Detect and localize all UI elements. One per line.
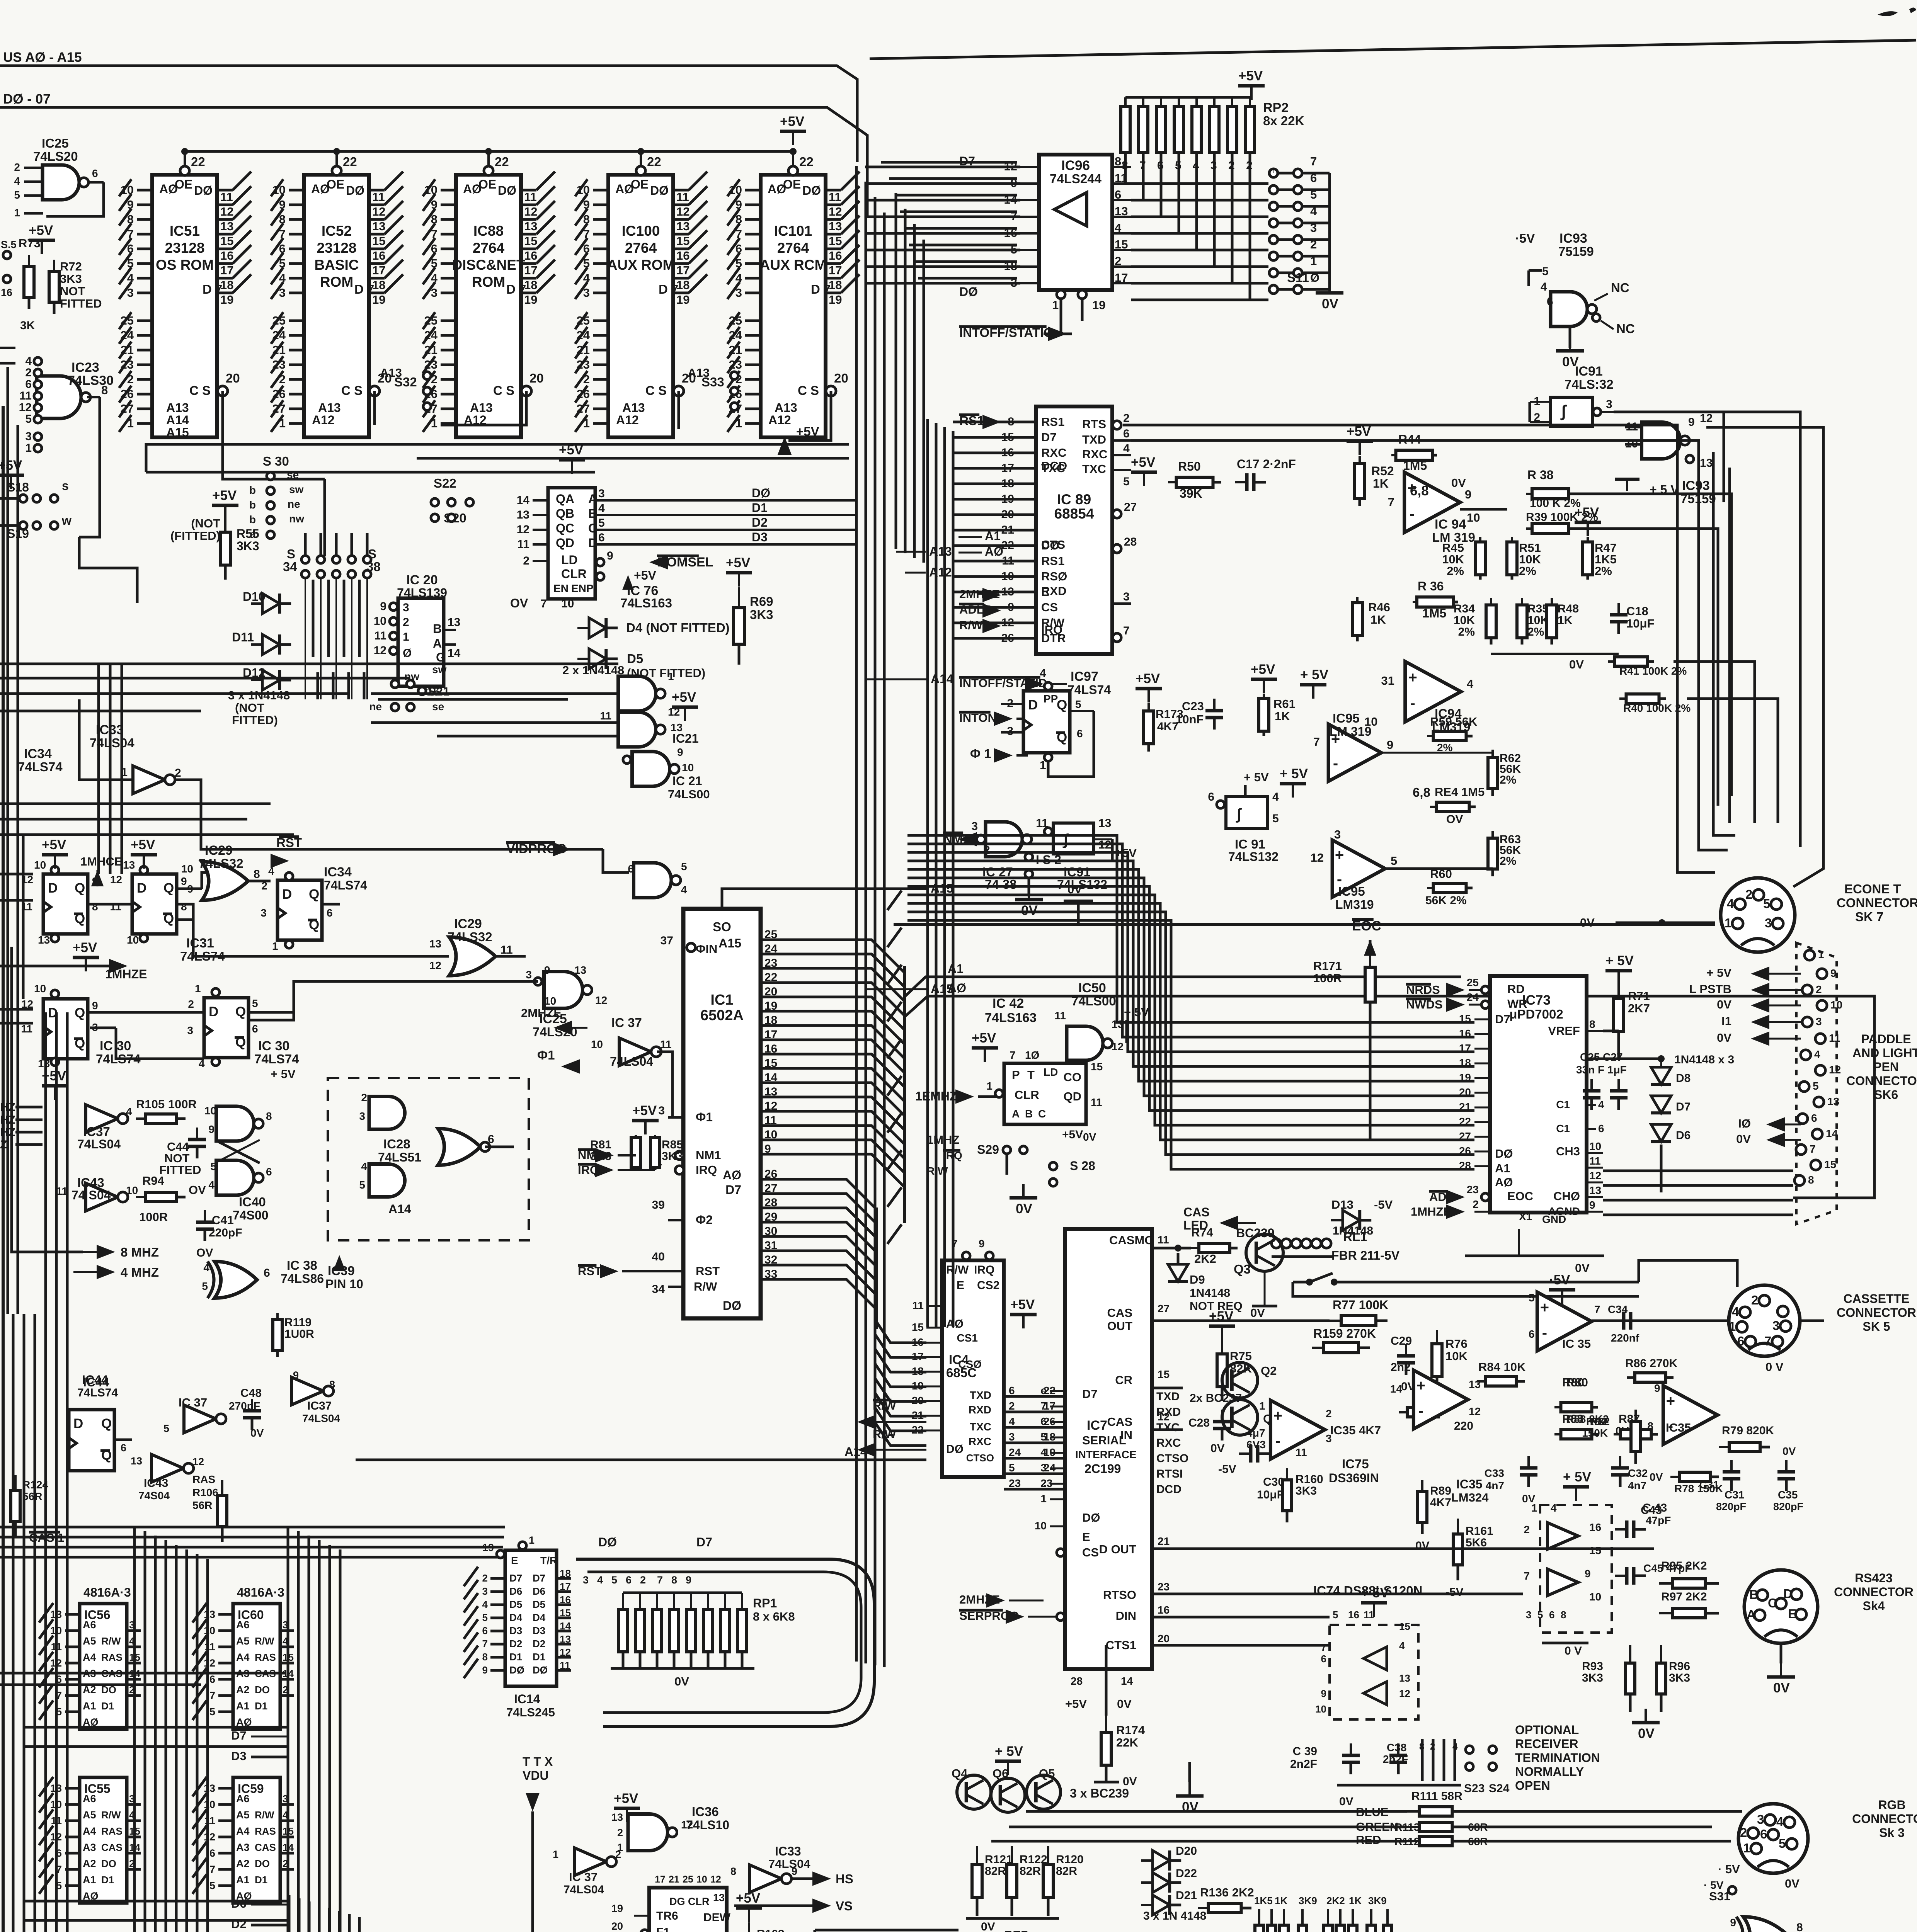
svg-text:56R: 56R (192, 1499, 212, 1511)
svg-text:13: 13 (1399, 1672, 1410, 1684)
svg-text:1K: 1K (1275, 709, 1290, 723)
svg-text:DISC&NET: DISC&NET (452, 257, 525, 273)
nand gate IC91 74LS132 (1053, 823, 1094, 854)
svg-text:RAS: RAS (192, 1473, 215, 1485)
svg-text:BASIC: BASIC (314, 257, 359, 273)
svg-text:12: 12 (560, 1646, 571, 1658)
svg-text:74LS74: 74LS74 (1067, 683, 1111, 697)
svg-text:3: 3 (971, 820, 978, 833)
svg-text:OE: OE (327, 177, 344, 191)
relay RL1 coil (1272, 1239, 1281, 1248)
resistor R86 (1627, 1376, 1635, 1379)
wire (32, 958, 73, 1272)
svg-text:R159 270K: R159 270K (1313, 1327, 1376, 1340)
svg-text:33: 33 (764, 1268, 777, 1281)
svg-text:R77 100K: R77 100K (1333, 1298, 1388, 1312)
svg-text:10: 10 (34, 983, 46, 995)
nand IC40 a (216, 1106, 254, 1141)
ROM IC100 (608, 175, 673, 437)
svg-text:D7: D7 (231, 1729, 247, 1742)
resistor R90 (1399, 1411, 1407, 1413)
svg-text:E: E (1788, 1607, 1796, 1621)
svg-text:6: 6 (92, 167, 98, 179)
svg-text:D7: D7 (1495, 1012, 1510, 1026)
wire (841, 172, 860, 190)
svg-text:1: 1 (1052, 298, 1059, 312)
svg-text:16: 16 (1348, 1609, 1359, 1621)
svg-text:13: 13 (131, 1455, 142, 1467)
svg-text:RS1: RS1 (1041, 554, 1064, 568)
svg-text:2K2: 2K2 (1194, 1252, 1216, 1265)
svg-text:4: 4 (25, 355, 32, 367)
svg-text:D: D (209, 1004, 218, 1019)
switch S32 (423, 372, 431, 379)
svg-text:R136 2K2: R136 2K2 (1200, 1886, 1254, 1899)
svg-text:+5V: +5V (672, 690, 696, 705)
svg-text:15: 15 (372, 234, 385, 248)
svg-text:29: 29 (764, 1211, 777, 1223)
svg-text:WR: WR (1507, 997, 1527, 1010)
svg-text:Φ 1: Φ 1 (970, 747, 991, 761)
power +5V RP2 (1250, 86, 1253, 97)
svg-text:11: 11 (524, 190, 537, 204)
svg-text:7: 7 (1594, 1303, 1600, 1315)
diode D22 (1153, 1872, 1170, 1893)
svg-text:24: 24 (764, 942, 778, 955)
svg-text:T/R: T/R (540, 1555, 557, 1566)
inverter IC37 c48 (184, 1405, 216, 1433)
svg-text:10: 10 (1035, 1520, 1047, 1532)
svg-text:15: 15 (1158, 1368, 1170, 1380)
svg-text:4: 4 (1040, 667, 1046, 680)
svg-text:IC 94: IC 94 (1435, 517, 1466, 532)
svg-text:74LS32: 74LS32 (199, 856, 243, 871)
svg-text:13: 13 (38, 1058, 50, 1070)
svg-text:DCD: DCD (1041, 459, 1067, 473)
wire switch matrix verticals (305, 578, 306, 699)
svg-text:IC35: IC35 (1456, 1477, 1483, 1491)
svg-text:D1: D1 (533, 1651, 545, 1663)
wire termination resistors (1421, 1739, 1424, 1781)
nor gate IC28 c (438, 1129, 480, 1165)
svg-text:Q4: Q4 (952, 1767, 968, 1780)
wire A1 A0 breakout (904, 977, 1461, 997)
svg-text:16: 16 (524, 249, 537, 262)
svg-text:10: 10 (591, 1038, 603, 1050)
svg-text:6: 6 (488, 1133, 494, 1146)
svg-text:D1: D1 (509, 1651, 522, 1663)
svg-text:OS ROM: OS ROM (156, 257, 214, 273)
svg-text:8 MHZ: 8 MHZ (121, 1245, 159, 1259)
svg-text:D5: D5 (627, 651, 643, 666)
svg-text:CH3: CH3 (1556, 1145, 1580, 1158)
wire econet long TXD (1131, 440, 1727, 850)
svg-text:5: 5 (14, 189, 20, 201)
svg-text:9: 9 (1730, 1917, 1736, 1929)
svg-text:OPEN: OPEN (1515, 1779, 1550, 1793)
diode D5 (589, 649, 606, 669)
svg-text:15: 15 (1459, 1013, 1471, 1025)
op-amp IC35 cassette out (1537, 1292, 1592, 1351)
svg-text:DØ: DØ (959, 285, 978, 299)
svg-text:-: - (1542, 1324, 1547, 1341)
svg-text:+: + (1666, 1393, 1675, 1410)
svg-text:3 x 1N4148: 3 x 1N4148 (228, 689, 290, 702)
wire mid-left horizontals 2 (0, 803, 271, 805)
svg-text:R171: R171 (1313, 959, 1342, 973)
capacitor C23 (1213, 699, 1216, 711)
svg-text:A: A (433, 636, 442, 650)
svg-text:1K: 1K (1373, 476, 1389, 490)
svg-text:IRQ: IRQ (974, 1264, 994, 1276)
svg-text:IC43: IC43 (77, 1175, 104, 1190)
svg-text:21: 21 (1459, 1101, 1471, 1113)
svg-text:2: 2 (1326, 1408, 1332, 1420)
svg-text:RXC: RXC (969, 1435, 991, 1447)
svg-text:CONNECTOR: CONNECTOR (1837, 1306, 1916, 1320)
wire serial bottoms (1105, 1645, 1108, 1716)
wire cassette routes (1592, 1320, 1730, 1322)
svg-text:0V: 0V (250, 1427, 264, 1439)
svg-text:15: 15 (829, 234, 842, 248)
xor gate IC48 video (1743, 1917, 1788, 1932)
svg-text:R76: R76 (1445, 1337, 1468, 1350)
svg-text:PP: PP (1044, 693, 1058, 705)
svg-text:X1: X1 (1519, 1211, 1532, 1223)
svg-text:19: 19 (220, 293, 233, 306)
svg-text:23: 23 (1009, 1477, 1021, 1489)
nand IC40 b (216, 1160, 254, 1195)
resistor R89 (1421, 1480, 1423, 1492)
svg-text:IC 30: IC 30 (258, 1039, 289, 1053)
power +5V (726, 571, 752, 575)
svg-text:TERMINATION: TERMINATION (1515, 1751, 1600, 1765)
paddle pins (1805, 950, 1815, 960)
svg-text:22: 22 (764, 971, 777, 984)
svg-text:0V: 0V (1322, 296, 1338, 311)
svg-text:OUT: OUT (1107, 1319, 1133, 1333)
svg-text:13: 13 (448, 616, 460, 629)
resistor R96 (1660, 1645, 1662, 1663)
IC14 74LS245 (505, 1550, 557, 1686)
svg-text:15: 15 (1115, 238, 1128, 251)
svg-text:6: 6 (209, 1673, 215, 1685)
svg-text:12: 12 (110, 874, 122, 886)
svg-text:17: 17 (1459, 1042, 1471, 1054)
svg-text:R40 100K 2%: R40 100K 2% (1623, 702, 1691, 714)
svg-text:9: 9 (482, 1664, 488, 1676)
or gate IC29 74LS32 (202, 862, 248, 900)
svg-text:12: 12 (595, 994, 607, 1006)
op-amp IC35 cassette in (1270, 1400, 1325, 1459)
svg-text:A12: A12 (312, 413, 335, 427)
svg-text:R84 10K: R84 10K (1478, 1360, 1526, 1374)
svg-text:RAS: RAS (255, 1825, 276, 1837)
wire (174, 780, 603, 849)
svg-text:5: 5 (1763, 896, 1770, 911)
svg-text:74S04: 74S04 (138, 1490, 170, 1502)
svg-text:11: 11 (912, 1299, 924, 1311)
svg-text:C: C (1038, 1108, 1046, 1120)
svg-text:IC29: IC29 (454, 917, 482, 931)
IC76 74LS163 counter (548, 488, 595, 599)
wire A14 (866, 679, 928, 680)
xor gate IC38 (215, 1262, 257, 1298)
svg-text:4: 4 (208, 1179, 215, 1191)
svg-text:IC34: IC34 (324, 865, 352, 879)
svg-text:T: T (1027, 1068, 1035, 1082)
svg-text:IC37: IC37 (83, 1124, 110, 1139)
DIN connector SK4 RS423 (1744, 1570, 1818, 1643)
svg-text:+5V: +5V (614, 1791, 638, 1806)
svg-text:TXC: TXC (970, 1421, 991, 1433)
svg-text:3K3: 3K3 (750, 607, 773, 622)
svg-text:22K: 22K (1116, 1736, 1138, 1749)
svg-text:13: 13 (713, 1892, 725, 1903)
svg-text:A6: A6 (83, 1793, 96, 1804)
svg-text:+: + (1408, 669, 1417, 686)
svg-text:11: 11 (560, 1660, 570, 1671)
svg-text:IC44: IC44 (82, 1373, 108, 1387)
svg-text:A: A (588, 492, 597, 506)
svg-text:1: 1 (403, 631, 409, 643)
svg-text:23128: 23128 (317, 240, 357, 256)
wire S11 collect (1303, 172, 1330, 175)
svg-text:D: D (588, 536, 597, 550)
svg-text:3: 3 (1526, 1609, 1531, 1621)
svg-text:IC36: IC36 (692, 1804, 719, 1819)
svg-text:11: 11 (1054, 1010, 1066, 1022)
svg-text:Φ2: Φ2 (696, 1213, 713, 1227)
svg-text:21: 21 (669, 1874, 679, 1885)
svg-text:15: 15 (524, 234, 537, 248)
svg-text:2MHZE: 2MHZE (521, 1006, 562, 1020)
svg-text:11: 11 (1364, 1609, 1374, 1621)
svg-text:6: 6 (1737, 1334, 1744, 1348)
svg-text:6,8: 6,8 (1413, 785, 1430, 799)
svg-text:0V: 0V (1736, 1132, 1751, 1146)
resistor R103 (748, 1922, 750, 1932)
svg-text:5: 5 (209, 1706, 215, 1718)
svg-text:27: 27 (1158, 1303, 1170, 1315)
resistor R95 (1659, 1582, 1673, 1585)
transistor Q4 (957, 1775, 991, 1809)
svg-text:18: 18 (524, 278, 537, 292)
paddle connector SK6 outline (1796, 943, 1837, 1224)
svg-text:8x 22K: 8x 22K (1263, 114, 1304, 128)
svg-text:6: 6 (598, 531, 605, 544)
svg-text:DIN: DIN (1116, 1609, 1136, 1622)
svg-text:10: 10 (127, 934, 139, 946)
svg-text:S 30: S 30 (263, 454, 289, 468)
svg-text:74LS245: 74LS245 (506, 1706, 555, 1719)
svg-text:RB2: RB2 (1586, 1415, 1608, 1427)
svg-text:US AØ - A15: US AØ - A15 (3, 50, 82, 65)
power +5V (131, 853, 157, 857)
svg-text:220pF: 220pF (209, 1226, 242, 1239)
svg-text:9: 9 (677, 746, 683, 758)
svg-text:68854: 68854 (1054, 506, 1094, 522)
IC7 2C199 serial ULA (1065, 1229, 1152, 1669)
resistor R34 (1490, 598, 1492, 605)
svg-text:1MHZ: 1MHZ (927, 1133, 959, 1146)
svg-text:CAS: CAS (1107, 1415, 1132, 1429)
wire (79, 537, 137, 603)
op-amp IC35 LM324 (1413, 1370, 1468, 1429)
svg-text:2K7: 2K7 (1628, 1002, 1650, 1015)
svg-text:7: 7 (1810, 1143, 1816, 1155)
IC89 68854 ADLC (1036, 406, 1112, 654)
svg-text:5: 5 (1391, 854, 1397, 867)
svg-text:13: 13 (204, 1609, 215, 1620)
svg-text:RTS: RTS (1082, 417, 1106, 431)
svg-text:NC: NC (1616, 321, 1635, 336)
svg-text:17: 17 (655, 1874, 666, 1885)
svg-text:IC 37: IC 37 (179, 1396, 207, 1409)
svg-text:R93: R93 (1582, 1660, 1603, 1673)
svg-text:AUX RCM: AUX RCM (760, 257, 827, 273)
svg-text:19: 19 (1044, 1446, 1056, 1458)
svg-text:RS1: RS1 (1041, 415, 1064, 429)
svg-text:S22: S22 (434, 476, 456, 490)
svg-text:+5V: +5V (632, 1103, 657, 1118)
svg-text:20: 20 (529, 371, 544, 385)
ground 0V 2 (1188, 1782, 1191, 1796)
svg-text:2K2: 2K2 (1326, 1895, 1345, 1906)
svg-text:+5V: +5V (726, 555, 751, 570)
svg-text:13: 13 (829, 219, 842, 233)
svg-text:5: 5 (1542, 265, 1549, 278)
svg-text:R85: R85 (662, 1138, 683, 1151)
svg-text:220: 220 (1454, 1420, 1473, 1432)
svg-text:1: 1 (25, 442, 32, 454)
svg-text:LM324: LM324 (1451, 1491, 1489, 1504)
nand gate IC27 7438 (986, 822, 1022, 857)
ground RP1 (611, 1667, 754, 1670)
svg-text:10K: 10K (1454, 614, 1475, 627)
svg-text:C48: C48 (240, 1387, 262, 1400)
svg-text:DO: DO (255, 1858, 270, 1869)
svg-text:PADDLE: PADDLE (1861, 1032, 1911, 1046)
svg-text:47pF: 47pF (1646, 1514, 1671, 1526)
signal VS (812, 1898, 831, 1913)
svg-text:8: 8 (1589, 1018, 1595, 1030)
svg-text:2: 2 (403, 616, 409, 629)
svg-text:sw: sw (289, 483, 304, 495)
svg-text:ROM: ROM (320, 274, 353, 290)
svg-text:1: 1 (14, 207, 20, 219)
svg-text:R105 100R: R105 100R (136, 1097, 197, 1111)
resistor R80 (1554, 1406, 1561, 1408)
svg-text:3K3: 3K3 (1669, 1672, 1690, 1684)
svg-text:2%: 2% (1458, 626, 1475, 638)
svg-text:0 V: 0 V (1765, 1360, 1784, 1374)
svg-text:·5V: ·5V (1549, 1272, 1570, 1287)
capacitor C38 (1397, 1743, 1399, 1755)
transistor Q1 (1222, 1400, 1258, 1435)
svg-text:-: - (1410, 695, 1415, 712)
svg-text:1K5: 1K5 (1254, 1895, 1273, 1906)
svg-text:3: 3 (1606, 398, 1612, 411)
wire trunk V1 (855, 166, 858, 1329)
dash box IC28 (328, 1078, 529, 1240)
svg-text:9: 9 (607, 549, 613, 562)
resistor R69 (738, 587, 740, 608)
svg-text:3: 3 (25, 430, 32, 443)
svg-text:DCD: DCD (1156, 1483, 1182, 1496)
svg-text:+5V: +5V (1010, 1297, 1035, 1312)
svg-text:IC7: IC7 (1087, 1418, 1107, 1433)
svg-text:A12: A12 (616, 413, 639, 427)
svg-text:3: 3 (1765, 916, 1772, 930)
svg-text:6: 6 (1009, 1384, 1015, 1396)
svg-text:ENP: ENP (571, 582, 594, 594)
resistor R84 (1477, 1380, 1486, 1383)
svg-text:+5V: +5V (1131, 455, 1156, 470)
svg-text:5: 5 (209, 1880, 215, 1891)
svg-text:RXD: RXD (1041, 584, 1066, 598)
svg-text:D6: D6 (533, 1585, 545, 1597)
switch S16 (3, 275, 11, 283)
svg-text:CASSETTE: CASSETTE (1844, 1292, 1910, 1306)
svg-text:se: se (432, 701, 444, 713)
svg-text:0V: 0V (1569, 658, 1584, 671)
op-amp IC94 LM319 (1405, 472, 1460, 532)
signal HS (812, 1871, 831, 1886)
svg-text:9: 9 (181, 875, 187, 887)
svg-text:R106: R106 (192, 1486, 218, 1498)
svg-text:DØ - 07: DØ - 07 (3, 92, 51, 107)
svg-text:3: 3 (658, 1104, 665, 1117)
svg-text:IC93: IC93 (1559, 231, 1587, 246)
svg-text:1: 1 (986, 1080, 993, 1092)
svg-text:23: 23 (1467, 1184, 1479, 1196)
svg-text:8: 8 (671, 1574, 677, 1586)
power +5V (1209, 1325, 1235, 1328)
power +5V (559, 458, 585, 462)
svg-text:10: 10 (204, 1625, 215, 1636)
svg-text:+5V: +5V (1209, 1309, 1234, 1324)
svg-text:19: 19 (482, 1542, 494, 1553)
IC5 SA5050 (649, 1888, 727, 1932)
svg-text:B: B (1025, 1108, 1033, 1120)
svg-text:NOT: NOT (60, 284, 85, 298)
op-amp IC94 LM319 second (1405, 662, 1461, 722)
svg-text:TXD: TXD (1082, 433, 1106, 446)
svg-text:4n7: 4n7 (1486, 1480, 1504, 1492)
svg-text:2%: 2% (1437, 742, 1453, 753)
svg-text:DEW: DEW (703, 1911, 731, 1924)
wire dram verticals (133, 1526, 136, 1932)
wire 0V rail mid (894, 923, 1715, 926)
svg-text:CO: CO (1064, 1070, 1082, 1084)
svg-text:TXC: TXC (1082, 462, 1106, 476)
nand IC50 74LS00 (1067, 1026, 1103, 1060)
svg-text:E: E (511, 1554, 518, 1566)
svg-text:OPTIONAL: OPTIONAL (1515, 1723, 1579, 1737)
resistor R105 (136, 1117, 145, 1120)
svg-text:4: 4 (1467, 677, 1474, 690)
resistor R78 (1670, 1476, 1679, 1478)
wire video right verticals (814, 1930, 816, 1932)
svg-text:R/W: R/W (946, 1264, 969, 1276)
wire phi (657, 1052, 672, 1117)
svg-text:4: 4 (482, 1599, 488, 1610)
power +5V (972, 1046, 998, 1050)
svg-text:2: 2 (640, 1574, 646, 1586)
svg-text:19: 19 (611, 1903, 623, 1914)
svg-text:IC95: IC95 (1333, 711, 1360, 725)
